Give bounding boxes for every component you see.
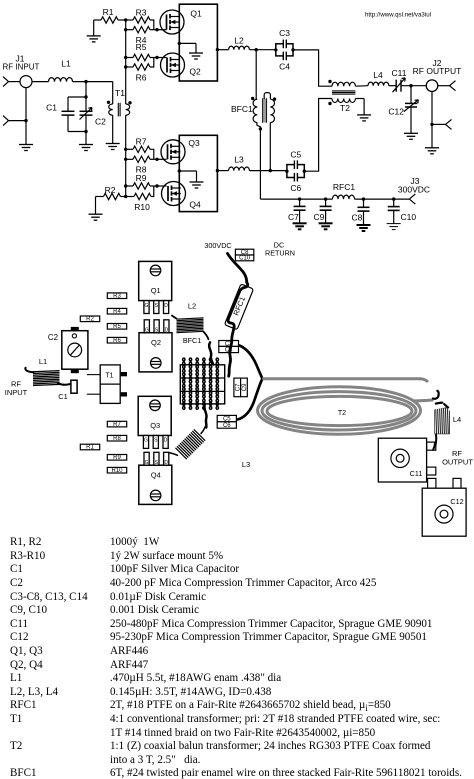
svg-text:OUTPUT: OUTPUT [442,458,473,467]
layout: RF OUTPUT label [442,449,473,467]
capacitor C8 [352,199,370,225]
capacitor pair C3 C4 [274,28,295,72]
svg-text:C1: C1 [58,392,68,401]
capacitor C7 [288,199,306,223]
wire box2 to L3 [217,170,228,172]
layout: inductor L4 [434,407,461,434]
layout: capacitor C1 [58,380,77,401]
layout: capacitor C9 label box [241,378,249,397]
resistor R2 [96,185,126,214]
svg-text:L3: L3 [242,460,250,469]
svg-text:D: D [164,438,168,444]
svg-text:R10: R10 [111,468,123,474]
ground (Q3 Q4 source) [190,182,204,188]
ground (C1 C2) [79,145,93,151]
layout: coax T2 lead [262,377,421,380]
layout: resistor R8 label box [107,435,126,441]
svg-text:C7: C7 [288,212,299,222]
svg-text:C1: C1 [46,103,57,113]
layout: wire C5C6 to coax [238,379,263,420]
svg-text:R5: R5 [113,324,121,330]
layout: capacitor C3 label box [219,341,239,347]
wire L2 to C3C4 [249,48,275,51]
layout: capacitor C6 label box [217,422,236,428]
svg-text:C4: C4 [279,62,290,72]
layout: wire L4 to C11 [434,434,436,448]
resistor R8 [124,156,159,174]
transistor Q4 [162,182,201,210]
transformer T1 [107,82,132,144]
choke BFC1 [231,50,276,199]
svg-text:C6: C6 [223,423,231,429]
ground (R1) [87,36,101,42]
wire gate Q4 [157,185,167,187]
svg-text:R2: R2 [86,317,94,323]
svg-text:R3: R3 [136,8,147,18]
svg-text:D: D [164,303,168,309]
layout: resistor R7 label box [107,421,126,427]
inductor L1 [49,59,73,82]
svg-text:R8: R8 [113,436,121,442]
svg-text:R5: R5 [136,42,147,52]
layout: resistor R6 label box [107,337,126,343]
wire L1 to T1 [73,80,113,83]
layout: inductor L3 [169,427,251,469]
layout: RF INPUT label [5,380,28,397]
transformer T2 [328,80,355,113]
svg-text:C9: C9 [242,383,248,391]
svg-text:R10: R10 [134,202,150,212]
wire gate Q3 [157,158,167,160]
svg-text:G: G [145,460,149,466]
inductor L2 [229,36,250,50]
svg-text:L4: L4 [373,70,383,80]
node box2 output [216,169,219,172]
svg-text:BFC1: BFC1 [183,336,201,345]
ground (Q1 Q2 source) [189,53,203,59]
layout: resistor R1 label box [80,444,99,450]
svg-text:T2: T2 [340,103,350,113]
layout: trimmer C2 [48,327,88,373]
layout: capacitor C8 label box [235,249,253,255]
layout: DC RETURN label [265,241,295,258]
layout: transistor Q3 [138,396,171,448]
svg-text:L4: L4 [453,415,461,424]
ground (T1) [106,144,120,150]
layout: capacitor C4 label box [219,346,239,352]
layout: trimmer C12 [422,478,466,536]
trimmer capacitor C2 [80,108,107,145]
resistor R9 [124,173,159,189]
choke RFC1 [333,182,356,199]
layout: BFC1 bottom lead [204,405,206,428]
svg-text:C10: C10 [401,212,417,222]
svg-text:RF INPUT: RF INPUT [3,63,40,72]
svg-text:C12: C12 [450,497,463,506]
layout: capacitor C10 label box [235,255,253,261]
svg-text:C12: C12 [388,107,404,117]
wire L3 to C5C6 [249,170,287,172]
svg-text:R7: R7 [113,422,121,428]
svg-text:Q2: Q2 [151,338,161,347]
layout: RFC1 wire [228,282,248,326]
svg-text:R6: R6 [136,73,147,83]
svg-text:INPUT: INPUT [5,388,28,397]
layout: L4 hook wires [433,391,448,408]
svg-text:L1: L1 [61,59,71,69]
svg-text:Q4: Q4 [151,471,161,480]
layout: coax balun T2 [258,387,434,435]
mid node wire (Q1 Q2) [178,42,196,53]
wire gate Q2 [157,57,167,59]
capacitor C1 [46,97,86,132]
wire C3C4 to T2 [293,50,332,86]
resistor R6 [124,58,154,83]
svg-text:R9: R9 [136,173,147,183]
svg-text:R1: R1 [86,445,94,451]
svg-text:300VDC: 300VDC [398,185,430,195]
capacitor C10 [388,199,417,224]
layout: transistor Q4 [139,452,172,504]
node box1 output [216,48,219,51]
svg-text:C10: C10 [239,256,251,262]
ground (C10) [387,224,401,230]
connector J3 [398,176,430,204]
ground (C8) [357,225,371,231]
capacitor pair C5 C6 [285,150,306,194]
wire T2 to L4 [355,85,368,88]
layout: 300VDC feed wire [228,254,247,283]
layout: capacitor C7 label box [234,378,242,397]
parts list [0,536,474,779]
layout: wire over C11 tab [433,443,435,450]
svg-text:RF OUTPUT: RF OUTPUT [413,66,462,76]
ground (J1) [19,145,33,151]
svg-text:C8: C8 [352,213,363,223]
svg-text:L2: L2 [234,36,244,46]
svg-text:Q1: Q1 [190,9,202,19]
svg-text:Q1: Q1 [151,286,161,295]
layout: resistor R5 label box [107,324,126,330]
T2 secondary ground wire [355,99,364,115]
svg-text:C5: C5 [290,150,301,160]
wire BFC1 to L3 node [269,123,272,173]
layout: resistor R9 label box [107,455,126,461]
node wire C1C2 [68,82,88,112]
resistor R3 [126,8,154,30]
svg-text:L2: L2 [188,302,196,311]
svg-text:C3: C3 [279,28,290,38]
mid node wire (Q3 Q4) [178,169,197,181]
svg-text:G: G [145,303,149,309]
svg-text:G: G [145,327,149,333]
svg-text:R6: R6 [113,338,121,344]
svg-text:R1: R1 [103,7,114,17]
layout: BFC1 top lead [209,343,213,365]
layout: resistor R4 label box [107,308,126,314]
ground (C9) [319,223,333,229]
wire gate Q1 [157,29,167,31]
layout: RFC1 wire lower tail [229,327,234,377]
connector J2 [413,58,462,91]
svg-text:D: D [164,460,168,466]
DC rail wire [260,197,409,200]
drain-source frame Q1 Q2 [179,4,217,81]
resistor R5 [124,42,159,61]
svg-text:C9: C9 [314,212,325,222]
svg-text:C11: C11 [392,68,407,78]
ground (C7) [293,223,307,229]
wire J1 to L1 [32,81,49,83]
svg-text:R7: R7 [136,137,147,147]
bias bus wire [125,20,127,197]
layout: resistor R10 label box [107,467,126,473]
svg-text:T1: T1 [105,373,113,380]
layout: inductor L2 [172,302,209,340]
J2 ground branch [430,92,451,148]
svg-text:Q3: Q3 [150,421,160,430]
layout: transistor Q2 [139,320,172,372]
svg-text:C2: C2 [48,333,59,342]
trimmer capacitor C12 [388,86,418,134]
ground (J2) [425,148,439,154]
ground (T2) [357,115,371,121]
ground (R2) [89,214,103,220]
resistor R4 [124,27,159,46]
wire box1 to L2 [217,49,228,51]
svg-text:R9: R9 [113,455,121,461]
resistor R10 [124,186,154,212]
wire C5C6 to T2 [304,99,332,172]
wire C11 to J2 [401,84,426,87]
transistor Q2 [161,53,201,77]
layout: wire C3C4 to coax [240,346,263,379]
trimmer capacitor C11 [392,68,407,92]
svg-text:R3: R3 [113,293,121,299]
resistor R1 [94,7,128,36]
svg-text:R4: R4 [113,309,121,315]
svg-text:D: D [165,327,169,333]
ground (C12) [404,133,418,139]
svg-text:Q4: Q4 [189,200,201,210]
resistor R7 [124,137,154,160]
svg-text:BFC1: BFC1 [231,104,253,114]
svg-text:C6: C6 [290,183,301,193]
layout: transistor Q1 [139,261,172,313]
svg-text:T1: T1 [115,88,125,98]
svg-text:300VDC: 300VDC [204,241,231,250]
svg-text:RFC1: RFC1 [333,182,355,192]
svg-text:RETURN: RETURN [265,249,295,258]
svg-text:Q2: Q2 [189,67,201,77]
layout: resistor R2 label box [80,316,99,322]
layout: inductor L1 [25,357,71,386]
svg-text:R2: R2 [105,185,116,195]
capacitor C9 [314,199,332,223]
svg-text:C2: C2 [95,117,106,127]
svg-text:http://www.qsl.net/va3iul: http://www.qsl.net/va3iul [365,12,432,19]
layout: transformer T1 [87,365,127,404]
wire L4 to C11 [389,85,396,87]
drain-source frame Q3 Q4 [179,135,217,211]
svg-text:C11: C11 [410,469,423,478]
svg-text:T2: T2 [338,410,346,417]
svg-text:L1: L1 [39,357,47,366]
J1 ground branch [3,88,28,145]
inductor L4 [368,70,389,86]
transistor Q1 [160,9,202,35]
layout: choke RFC1 body [224,284,253,330]
layout: choke BFC1 [180,336,224,410]
transistor Q3 [161,138,200,164]
layout: resistor R3 label box [107,293,126,299]
layout: trimmer C11 [378,438,436,482]
svg-text:Q3: Q3 [188,138,200,148]
svg-text:G: G [144,438,148,444]
layout: capacitor C5 label box [217,415,236,421]
svg-text:L3: L3 [234,155,244,165]
connector J1 [3,54,40,88]
inductor L3 [229,155,250,171]
